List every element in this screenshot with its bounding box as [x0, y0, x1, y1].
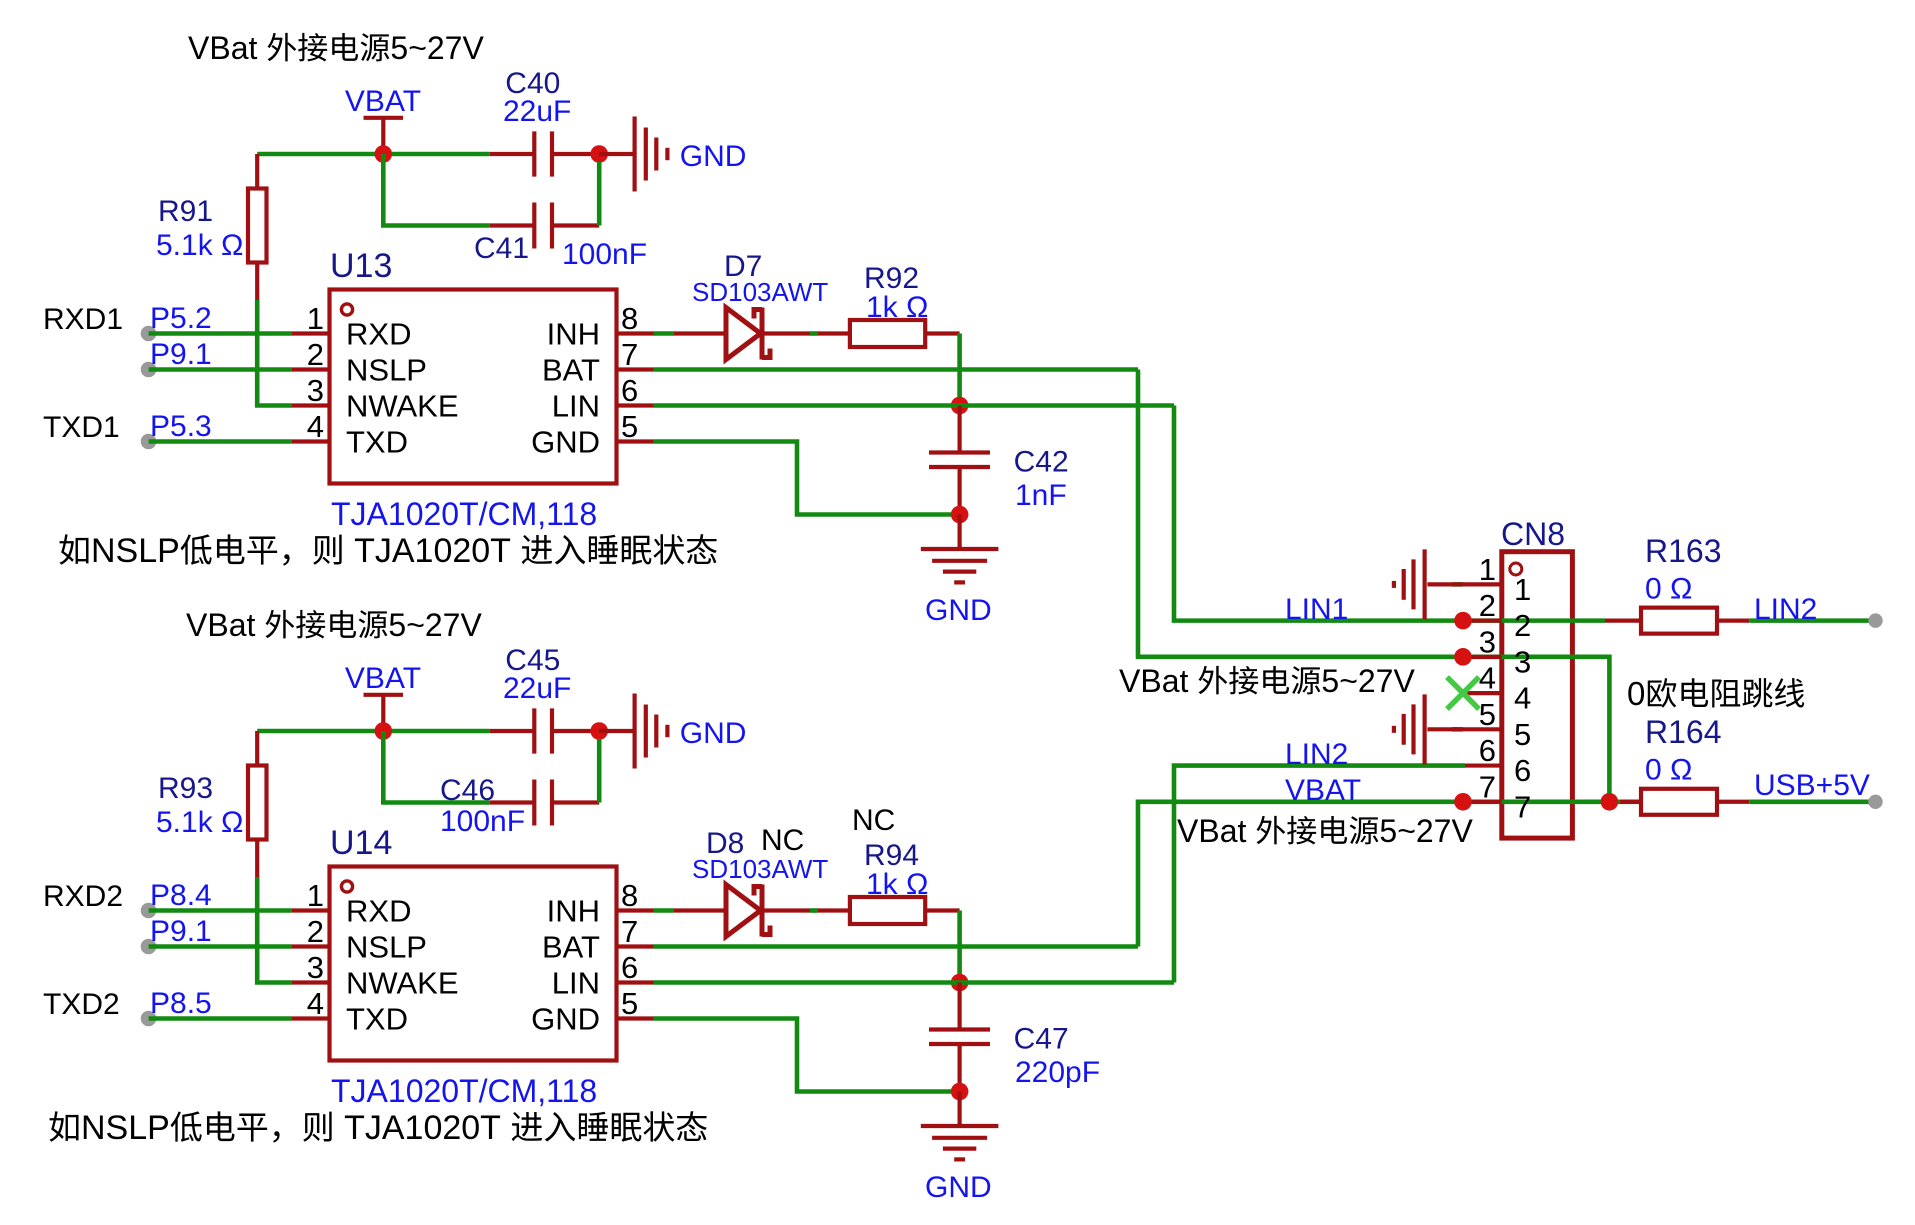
label port P8.4: [150, 879, 212, 912]
capacitor C45: [490, 708, 600, 753]
label R164: [1645, 714, 1722, 750]
CN8 pin1 ground lead: [1427, 582, 1465, 586]
ground symbol CN8 pin1: [1394, 549, 1425, 619]
svg-text:NSLP: NSLP: [346, 930, 427, 965]
pin name NWAKE / LIN: [346, 389, 600, 424]
port P8.5 (TXD): [141, 1011, 330, 1027]
junction CN8 pin7: [1454, 793, 1472, 811]
svg-text:SD103AWT: SD103AWT: [692, 854, 828, 884]
CN8 pin stub 1: [1465, 582, 1502, 586]
junction CN8 pin2: [1454, 612, 1472, 630]
pin stub 8: [617, 908, 654, 912]
svg-text:NSLP: NSLP: [346, 353, 427, 388]
svg-text:100nF: 100nF: [440, 805, 525, 838]
wire diode to R: [810, 331, 818, 336]
power flag VBAT: [345, 662, 421, 731]
connector CN8 box: [1502, 552, 1573, 838]
pin number 2 / 7: [307, 914, 639, 949]
svg-text:RXD1: RXD1: [43, 303, 123, 336]
pin stub 7: [617, 944, 654, 948]
junction R/LIN: [951, 974, 969, 992]
no-connect X CN8 pin4: [1447, 677, 1479, 709]
label R93 value 5.1kΩ: [156, 806, 243, 839]
CN8 pin number 4 inside: [1514, 681, 1531, 716]
svg-text:3: 3: [307, 373, 324, 408]
pin number 2 / 7: [307, 337, 639, 372]
wire CN8 pin2 through to R163: [1463, 618, 1605, 623]
svg-text:5: 5: [621, 409, 638, 444]
pin name NSLP / BAT: [346, 930, 600, 965]
resistor R94 1k: [818, 897, 960, 924]
label D7 value SD103AWT: [692, 277, 828, 307]
svg-text:VBat: VBat: [188, 30, 257, 66]
port P9.1 (NSLP): [141, 362, 330, 378]
junction C3/GND: [951, 1083, 969, 1101]
svg-text:INH: INH: [547, 317, 600, 352]
label D8 value SD103AWT: [692, 854, 828, 884]
svg-text:LIN2: LIN2: [1285, 738, 1348, 771]
label R93: [158, 772, 213, 805]
wire R down to LIN: [957, 911, 962, 983]
svg-text:4: 4: [307, 409, 324, 444]
wire LIN1 U13 to CN8 pin2: [1174, 406, 1463, 621]
svg-text:TJA1020T: TJA1020T: [354, 532, 511, 570]
svg-text:5: 5: [1479, 697, 1496, 732]
CN8 pin stub 7: [1465, 800, 1502, 804]
pin stub 5: [617, 439, 654, 443]
svg-text:RXD: RXD: [346, 894, 411, 929]
svg-text:TJA1020T/CM,118: TJA1020T/CM,118: [331, 1073, 597, 1109]
label port P9.1: [150, 915, 212, 948]
svg-text:R93: R93: [158, 772, 213, 805]
svg-text:GND: GND: [531, 425, 600, 460]
label R94: [864, 839, 919, 872]
pin name RXD / INH: [346, 894, 600, 929]
svg-text:LIN: LIN: [552, 966, 600, 1001]
svg-text:VBat: VBat: [186, 607, 255, 643]
label C45 value 22uF: [503, 672, 571, 705]
label LIN1 net: [1285, 593, 1348, 626]
CN8 pin number 6 outside: [1479, 733, 1496, 768]
svg-text:5~27V: 5~27V: [1321, 663, 1415, 699]
svg-text:22uF: 22uF: [503, 95, 571, 128]
CN8 pin number 1 outside: [1479, 552, 1496, 587]
svg-text:P5.3: P5.3: [150, 410, 212, 443]
svg-text:GND: GND: [925, 594, 992, 627]
wire R bottom to NWAKE: [257, 300, 292, 406]
svg-text:RXD2: RXD2: [43, 880, 123, 913]
wire C2 to GND node: [597, 162, 602, 226]
label U13: [330, 247, 392, 285]
svg-text:100nF: 100nF: [562, 238, 647, 271]
resistor R164 0ohm: [1620, 789, 1749, 815]
junction C-GND node: [590, 722, 608, 740]
label C41: [474, 232, 529, 265]
svg-text:2: 2: [307, 914, 324, 949]
CN8 pin number 4 outside: [1479, 661, 1496, 696]
label C42: [1014, 446, 1069, 479]
svg-text:R91: R91: [158, 195, 213, 228]
svg-text:4: 4: [1479, 661, 1496, 696]
svg-text:3: 3: [1514, 644, 1531, 679]
port P5.2 (RXD): [141, 326, 330, 342]
svg-text:22uF: 22uF: [503, 672, 571, 705]
svg-text:0 Ω: 0 Ω: [1645, 573, 1692, 606]
pin stub 6: [617, 980, 654, 984]
svg-text:SD103AWT: SD103AWT: [692, 277, 828, 307]
pin name RXD / INH: [346, 317, 600, 352]
svg-text:7: 7: [1479, 769, 1496, 804]
wire R down to LIN: [957, 334, 962, 406]
svg-text:1k Ω: 1k Ω: [866, 868, 928, 901]
svg-text:5.1k Ω: 5.1k Ω: [156, 229, 243, 262]
label TXD1: [43, 411, 120, 444]
svg-text:5: 5: [621, 986, 638, 1021]
IC U14 TJA1020T box: [330, 867, 617, 1061]
diode D8 SD103AWT: [674, 885, 810, 937]
capacitor C42: [929, 406, 990, 515]
label CN8: [1501, 516, 1565, 552]
CN8 pin number 2 outside: [1479, 588, 1496, 623]
wire CN8 pin7 through to R164: [1463, 799, 1641, 804]
svg-text:C46: C46: [440, 774, 495, 807]
CN8 pin number 5 inside: [1514, 717, 1531, 752]
junction R/LIN: [951, 397, 969, 415]
label D8: [706, 824, 804, 860]
svg-text:GND: GND: [925, 1171, 992, 1204]
svg-text:P8.4: P8.4: [150, 879, 212, 912]
svg-text:5~27V: 5~27V: [388, 607, 482, 643]
svg-text:2: 2: [1514, 608, 1531, 643]
svg-text:BAT: BAT: [542, 930, 600, 965]
svg-text:R164: R164: [1645, 714, 1722, 750]
label R94 value 1kΩ: [866, 868, 928, 901]
text note VBat near pin7: [1177, 813, 1473, 849]
svg-text:VBAT: VBAT: [345, 662, 421, 695]
label port P8.5: [150, 987, 212, 1020]
svg-text:4: 4: [307, 986, 324, 1021]
svg-text:U13: U13: [330, 247, 392, 285]
junction R164 node: [1601, 793, 1619, 811]
text note VBat power: [188, 30, 484, 66]
port P8.4 (RXD): [141, 903, 330, 919]
pin3 stub NWAKE: [292, 980, 330, 984]
CN8 pin stub 4: [1465, 691, 1502, 695]
label C40 value 22uF: [503, 95, 571, 128]
svg-text:NSLP: NSLP: [91, 532, 180, 570]
label R163: [1645, 533, 1722, 569]
label C45: [505, 644, 560, 677]
svg-text:NWAKE: NWAKE: [346, 966, 459, 1001]
svg-text:P9.1: P9.1: [150, 915, 212, 948]
ground symbol right of C40: [599, 117, 667, 192]
label port P9.1: [150, 338, 212, 371]
label R164 value 0Ω: [1645, 754, 1692, 787]
CN8 pin number 3 outside: [1479, 624, 1496, 659]
svg-text:LIN2: LIN2: [1754, 593, 1817, 626]
label RXD1: [43, 303, 123, 336]
pin name NSLP / BAT: [346, 353, 600, 388]
svg-text:7: 7: [621, 337, 638, 372]
wire R164 to USB+5V port: [1749, 795, 1883, 809]
label NC above R94: [852, 804, 895, 837]
svg-text:5~27V: 5~27V: [1379, 813, 1473, 849]
note sleep state: [50, 1109, 707, 1147]
svg-text:TXD: TXD: [346, 425, 408, 460]
svg-text:1: 1: [1514, 572, 1531, 607]
label C46: [440, 774, 495, 807]
label RXD2: [43, 880, 123, 913]
CN8 pin number 7 outside: [1479, 769, 1496, 804]
ground symbol CN8 pin5: [1394, 694, 1425, 764]
svg-text:U14: U14: [330, 824, 392, 862]
svg-text:R163: R163: [1645, 533, 1722, 569]
power flag VBAT: [345, 85, 421, 154]
label R163 value 0Ω: [1645, 573, 1692, 606]
label U13 value TJA1020T/CM,118: [331, 496, 597, 532]
svg-text:7: 7: [621, 914, 638, 949]
wire dash pin5: [1452, 727, 1463, 732]
diode D7 SD103AWT: [674, 308, 810, 360]
junction CN8 pin3: [1454, 648, 1472, 666]
pin name TXD / GND: [346, 425, 600, 460]
pin stub 5: [617, 1016, 654, 1020]
junction C3/GND: [951, 506, 969, 524]
label GND net: [680, 717, 747, 750]
pin name NWAKE / LIN: [346, 966, 600, 1001]
text note 0 ohm jumper: [1627, 675, 1804, 712]
capacitor C47: [929, 983, 990, 1092]
svg-text:TJA1020T/CM,118: TJA1020T/CM,118: [331, 496, 597, 532]
svg-text:VBAT: VBAT: [345, 85, 421, 118]
pin stub 6: [617, 403, 654, 407]
label LIN2 net: [1285, 738, 1348, 771]
capacitor C46: [490, 780, 600, 826]
resistor R163 0ohm: [1605, 608, 1749, 634]
CN8 pin5 ground lead: [1427, 727, 1465, 731]
label LIN2 right port: [1754, 593, 1817, 626]
label C42 value: [1015, 479, 1067, 512]
wire CN8 pin3 through to vertical: [1463, 657, 1609, 802]
svg-text:VBat: VBat: [1177, 813, 1246, 849]
label GND net bottom: [925, 1171, 992, 1204]
wire diode to R: [810, 908, 818, 913]
svg-text:VBAT: VBAT: [1285, 774, 1361, 807]
label GND net bottom: [925, 594, 992, 627]
text note VBat near pin3: [1119, 663, 1415, 699]
wire VBAT U13-BAT to CN8 pin3: [1138, 370, 1463, 657]
label U14 value TJA1020T/CM,118: [331, 1073, 597, 1109]
svg-text:2: 2: [1479, 588, 1496, 623]
svg-text:CN8: CN8: [1501, 516, 1565, 552]
svg-text:2: 2: [307, 337, 324, 372]
svg-text:7: 7: [1514, 789, 1531, 824]
label port P5.3: [150, 410, 212, 443]
svg-text:GND: GND: [680, 140, 747, 173]
CN8 pin number 3 inside: [1514, 644, 1531, 679]
svg-text:INH: INH: [547, 894, 600, 929]
resistor R91: [248, 154, 267, 300]
svg-text:LIN: LIN: [552, 389, 600, 424]
pin number 1 / 8: [307, 301, 639, 336]
CN8 pin number 7 inside: [1514, 789, 1531, 824]
pin number 3 / 6: [307, 373, 639, 408]
wire LIN net: [654, 403, 1175, 408]
svg-text:220pF: 220pF: [1015, 1056, 1100, 1089]
resistor R93: [248, 731, 267, 877]
CN8 pin stub 3: [1465, 655, 1502, 659]
svg-text:1nF: 1nF: [1015, 479, 1067, 512]
label C47 value: [1015, 1056, 1100, 1089]
label R92 value 1kΩ: [866, 291, 928, 324]
svg-text:BAT: BAT: [542, 353, 600, 388]
port P5.3 (TXD): [141, 434, 330, 450]
svg-text:LIN1: LIN1: [1285, 593, 1348, 626]
label C46 value 100nF: [440, 805, 525, 838]
svg-text:VBat: VBat: [1119, 663, 1188, 699]
pin stub 7: [617, 367, 654, 371]
CN8 pin stub 6: [1465, 763, 1502, 767]
resistor R92 1k: [818, 320, 960, 347]
junction C-GND node: [590, 145, 608, 163]
label R91: [158, 195, 213, 228]
label C41 value 100nF: [562, 238, 647, 271]
wire VBAT rail: [257, 729, 490, 734]
svg-text:TXD1: TXD1: [43, 411, 120, 444]
ground symbol right of C45: [599, 694, 667, 769]
label C40: [505, 67, 560, 100]
svg-text:6: 6: [1514, 753, 1531, 788]
svg-text:6: 6: [1479, 733, 1496, 768]
wire INH to diode: [654, 331, 675, 336]
svg-text:USB+5V: USB+5V: [1754, 769, 1870, 802]
svg-text:P5.2: P5.2: [150, 302, 212, 335]
svg-text:C47: C47: [1014, 1023, 1069, 1056]
wire C2 to GND node: [597, 739, 602, 803]
svg-text:8: 8: [621, 878, 638, 913]
label C47: [1014, 1023, 1069, 1056]
svg-text:P8.5: P8.5: [150, 987, 212, 1020]
pin name TXD / GND: [346, 1002, 600, 1037]
svg-text:TJA1020T: TJA1020T: [344, 1109, 501, 1147]
note sleep state: [60, 532, 717, 570]
CN8 pin stub 2: [1465, 619, 1502, 623]
svg-text:1: 1: [1479, 552, 1496, 587]
wire VBAT CN8 pin7 to U14-BAT: [1138, 802, 1463, 947]
wire R163 to LIN2 port: [1749, 613, 1883, 627]
pin3 stub NWAKE: [292, 403, 330, 407]
svg-text:5: 5: [1514, 717, 1531, 752]
label U14: [330, 824, 392, 862]
svg-text:0: 0: [1627, 675, 1645, 712]
svg-text:C41: C41: [474, 232, 529, 265]
svg-text:GND: GND: [680, 717, 747, 750]
label TXD2: [43, 988, 120, 1021]
label D7: [724, 250, 762, 283]
label R91 value 5.1kΩ: [156, 229, 243, 262]
capacitor C40: [490, 131, 600, 176]
wire VBAT to C2 branch: [383, 154, 489, 226]
junction VBAT-stub: [375, 722, 393, 740]
wire BAT net: [654, 367, 1139, 372]
svg-text:1: 1: [307, 301, 324, 336]
ground symbol below C47: [921, 1092, 999, 1160]
CN8 pin number 1 inside: [1514, 572, 1531, 607]
svg-text:6: 6: [621, 950, 638, 985]
wire dash pin1: [1452, 582, 1463, 587]
pin number 3 / 6: [307, 950, 639, 985]
wire VBAT to C2 branch: [383, 731, 489, 803]
svg-text:RXD: RXD: [346, 317, 411, 352]
IC U13 TJA1020T box: [330, 290, 617, 484]
CN8 pin number 2 inside: [1514, 608, 1531, 643]
svg-text:4: 4: [1514, 681, 1531, 716]
ground symbol below C42: [921, 515, 999, 583]
wire INH to diode: [654, 908, 675, 913]
wire LIN net: [654, 980, 1175, 985]
pin number 4 / 5: [307, 986, 639, 1021]
text note VBat power: [186, 607, 482, 643]
CN8 pin number 5 outside: [1479, 697, 1496, 732]
port P9.1 (NSLP): [141, 939, 330, 955]
capacitor C41: [490, 203, 600, 249]
label VBAT net: [1285, 774, 1361, 807]
junction VBAT-stub: [375, 145, 393, 163]
svg-text:1k Ω: 1k Ω: [866, 291, 928, 324]
svg-text:5~27V: 5~27V: [390, 30, 484, 66]
svg-text:6: 6: [621, 373, 638, 408]
pin stub 8: [617, 331, 654, 335]
wire BAT net: [654, 944, 1139, 949]
wire GND pin5 path: [654, 1019, 952, 1092]
wire GND pin5 path: [654, 442, 952, 515]
svg-text:P9.1: P9.1: [150, 338, 212, 371]
pin number 1 / 8: [307, 878, 639, 913]
svg-text:C42: C42: [1014, 446, 1069, 479]
svg-text:NSLP: NSLP: [81, 1109, 170, 1147]
svg-text:3: 3: [307, 950, 324, 985]
label USB+5V port: [1754, 769, 1870, 802]
svg-text:TXD2: TXD2: [43, 988, 120, 1021]
svg-text:3: 3: [1479, 624, 1496, 659]
label port P5.2: [150, 302, 212, 335]
svg-text:5.1k Ω: 5.1k Ω: [156, 806, 243, 839]
wire VBAT rail: [257, 152, 490, 157]
label GND net: [680, 140, 747, 173]
CN8 pin stub 5: [1465, 727, 1502, 731]
svg-text:0 Ω: 0 Ω: [1645, 754, 1692, 787]
svg-text:TXD: TXD: [346, 1002, 408, 1037]
svg-text:8: 8: [621, 301, 638, 336]
wire R bottom to NWAKE: [257, 877, 292, 983]
svg-text:GND: GND: [531, 1002, 600, 1037]
svg-text:NC: NC: [761, 824, 804, 857]
svg-text:NC: NC: [852, 804, 895, 837]
label R92: [864, 262, 919, 295]
pin number 4 / 5: [307, 409, 639, 444]
CN8 pin number 6 inside: [1514, 753, 1531, 788]
svg-text:1: 1: [307, 878, 324, 913]
svg-text:NWAKE: NWAKE: [346, 389, 459, 424]
wire LIN2 CN8 pin6 to U14-LIN: [1174, 766, 1465, 983]
